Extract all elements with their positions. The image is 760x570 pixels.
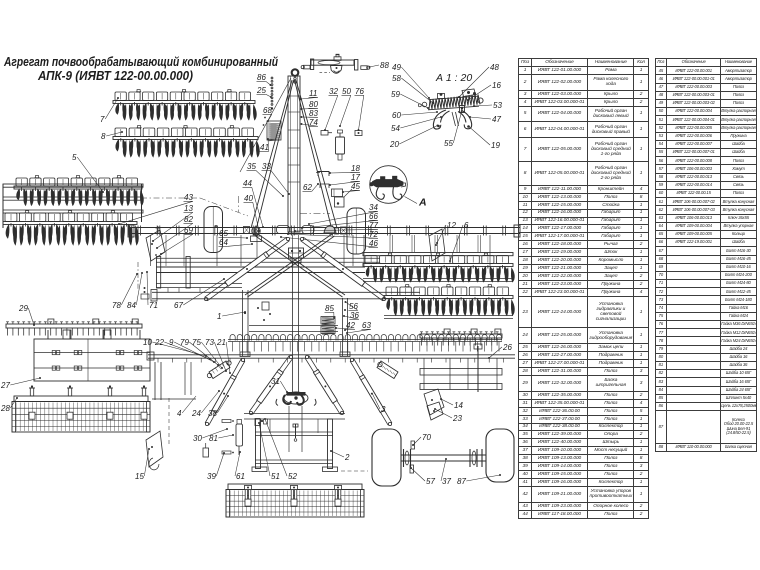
circle detail A <box>370 166 417 204</box>
inner arm left <box>256 234 346 297</box>
callout 5 <box>72 153 104 193</box>
svg-text:26: 26 <box>502 343 512 352</box>
callout 56 <box>345 301 359 311</box>
callout 51 <box>258 422 280 481</box>
callout 10 <box>143 338 207 357</box>
svg-text:40: 40 <box>244 194 253 203</box>
callout 50 <box>339 87 351 127</box>
chain (pos 86, 25) <box>271 77 273 110</box>
svg-text:49: 49 <box>392 63 401 72</box>
callout 55 <box>444 111 463 148</box>
svg-text:29: 29 <box>18 304 28 313</box>
callout 3 <box>372 393 386 414</box>
svg-text:75: 75 <box>192 338 201 347</box>
svg-text:34: 34 <box>369 203 378 212</box>
hydraulic lock parts (pos 32, 50, 76) <box>321 130 362 160</box>
spring block (pos 68, 41) <box>263 117 281 141</box>
svg-text:51: 51 <box>271 472 280 481</box>
wing fold arm right <box>300 237 385 301</box>
svg-text:Агрегат почвообрабатывающий ко: Агрегат почвообрабатывающий комбинирован… <box>3 54 278 69</box>
svg-text:3: 3 <box>381 405 386 414</box>
fold axis dash line <box>141 198 248 216</box>
callout 46 <box>280 236 378 248</box>
svg-text:15: 15 <box>135 472 144 481</box>
callout 23 <box>434 408 462 423</box>
callout 47 <box>469 115 501 124</box>
callout 29 <box>18 304 35 326</box>
callout 22 <box>154 338 211 360</box>
right disc gang row 1 (pos 6) <box>363 253 514 283</box>
left wing disc gang (pos 5) <box>3 176 143 245</box>
svg-text:23: 23 <box>452 414 462 423</box>
svg-text:39: 39 <box>207 472 216 481</box>
detail A spring assembly <box>418 89 483 129</box>
callout 57 <box>410 467 435 486</box>
svg-text:60: 60 <box>392 111 401 120</box>
outer arm left <box>205 358 245 425</box>
callout 83 <box>301 109 319 118</box>
svg-text:79: 79 <box>180 338 189 347</box>
svg-text:67: 67 <box>174 301 183 310</box>
callout 17 <box>329 173 360 186</box>
callout 61 <box>235 451 245 481</box>
right disc gang row 2 <box>384 285 514 316</box>
carrier frame (pos 2) <box>203 419 338 472</box>
callout 20 <box>389 125 439 150</box>
svg-text:41: 41 <box>260 143 269 152</box>
callout 69 <box>160 226 193 255</box>
svg-text:1: 1 <box>217 312 221 321</box>
svg-text:54: 54 <box>391 124 400 133</box>
spring stack (pos 53) <box>321 317 335 335</box>
third frame beam <box>151 290 420 302</box>
link fittings (pos 9,10,22) <box>257 302 271 321</box>
callout 35 <box>247 162 285 197</box>
callout 72 <box>287 230 378 239</box>
svg-text:80: 80 <box>309 100 318 109</box>
callout 54 <box>391 116 442 133</box>
callout 85 <box>325 304 336 319</box>
callout 34 <box>308 203 378 225</box>
svg-text:27: 27 <box>0 381 10 390</box>
svg-text:24: 24 <box>191 409 201 418</box>
callout 15 <box>135 448 150 481</box>
callout 66 <box>301 212 378 229</box>
callout 81 <box>209 434 234 443</box>
dashed link line <box>169 398 200 446</box>
callout 30 <box>193 428 228 443</box>
svg-text:9: 9 <box>169 338 174 347</box>
callout 28 <box>0 397 18 413</box>
svg-text:65: 65 <box>219 229 228 238</box>
gauge wheel left <box>204 207 223 253</box>
lower arm left <box>249 355 293 414</box>
svg-text:57: 57 <box>426 477 435 486</box>
callout 1 <box>217 311 246 321</box>
stand plate (pos 15) <box>146 431 163 470</box>
callout 75 <box>192 338 223 369</box>
detail title A 1:20 <box>435 72 472 84</box>
svg-text:81: 81 <box>209 434 218 443</box>
tine bar with spring clips <box>228 334 502 351</box>
svg-text:22: 22 <box>154 338 164 347</box>
svg-text:14: 14 <box>454 401 463 410</box>
callout 16 <box>467 81 501 101</box>
callout 44 <box>243 179 265 228</box>
roller basket (pos 28) <box>12 385 150 432</box>
right subframe (pos 26) <box>384 316 513 393</box>
svg-text:32: 32 <box>329 87 338 96</box>
bottom roller basket <box>226 484 364 517</box>
svg-text:А 1 : 20: А 1 : 20 <box>435 72 472 84</box>
dash-dot axis <box>239 196 331 214</box>
callout 32 <box>324 87 338 131</box>
svg-text:31: 31 <box>271 377 280 386</box>
callout 25 <box>256 86 272 98</box>
svg-text:25: 25 <box>256 86 266 95</box>
svg-text:72: 72 <box>369 230 378 239</box>
arm base bar <box>244 414 345 420</box>
svg-text:73: 73 <box>205 338 214 347</box>
svg-text:71: 71 <box>149 301 158 310</box>
frame posts <box>151 235 491 266</box>
svg-text:48: 48 <box>490 63 499 72</box>
svg-text:68: 68 <box>263 106 272 115</box>
callout 33 <box>262 162 291 195</box>
svg-text:61: 61 <box>236 472 245 481</box>
callout 39 <box>207 452 225 481</box>
callout 21 <box>216 338 231 374</box>
subframe (pos 27) <box>34 330 150 381</box>
right spike harrow <box>420 329 502 346</box>
parts table columns 1 (pos 1-44) <box>518 58 648 519</box>
callout 70 <box>412 433 431 446</box>
svg-text:20: 20 <box>389 140 399 149</box>
callout 58 <box>392 74 434 104</box>
callout 68 <box>263 106 273 122</box>
callout 86 <box>257 73 272 86</box>
svg-text:38: 38 <box>208 409 217 418</box>
wing fold arm left (pos 16) <box>204 237 289 301</box>
svg-text:33: 33 <box>262 162 271 171</box>
svg-text:87: 87 <box>457 477 466 486</box>
callout 6 <box>449 221 469 262</box>
svg-text:35: 35 <box>247 162 256 171</box>
callout 12 plate <box>429 229 445 261</box>
callout 65 <box>219 229 249 239</box>
callout 43 <box>118 193 193 225</box>
centre column <box>289 263 302 452</box>
callout 76 <box>355 87 365 131</box>
chain strainer left <box>207 361 231 379</box>
callout 60 <box>392 111 438 120</box>
svg-text:37: 37 <box>442 477 451 486</box>
callout 45 <box>342 182 360 193</box>
svg-text:А: А <box>418 197 427 209</box>
callout 13 <box>152 204 193 242</box>
svg-text:18: 18 <box>351 164 360 173</box>
title line 1 <box>3 54 278 69</box>
svg-text:4: 4 <box>177 409 182 418</box>
hitch beam assembly (pos 88) <box>301 54 370 73</box>
callout 71 <box>146 271 158 310</box>
callout 27 <box>0 377 41 390</box>
rotary hub (pos 31) <box>276 392 316 406</box>
callout 79 <box>180 338 219 366</box>
callout 59 <box>391 90 429 109</box>
bracket plate (pos 13) <box>146 226 165 261</box>
outer arm right <box>350 358 392 425</box>
callout 18 <box>329 164 360 174</box>
beam centre fittings (pos 34,66,77,72,46) <box>244 226 347 235</box>
svg-text:84: 84 <box>127 301 136 310</box>
callout 19 <box>468 126 501 151</box>
callout 82 <box>156 215 193 249</box>
wheel chock (pos 14, 23) <box>424 389 444 420</box>
svg-text:7: 7 <box>100 115 105 124</box>
callout 48 <box>458 63 499 98</box>
callout 62 <box>303 183 320 192</box>
callout 12 <box>436 221 456 244</box>
transport wheel right <box>486 429 514 482</box>
disc gang row (pos 7) <box>113 90 256 120</box>
svg-text:6: 6 <box>464 221 469 230</box>
svg-text:76: 76 <box>355 87 364 96</box>
callout 2 <box>330 450 350 462</box>
svg-text:52: 52 <box>288 472 297 481</box>
svg-text:2: 2 <box>344 453 350 462</box>
parts table columns 2 (pos 45-88) <box>655 58 757 452</box>
hinge bracket <box>335 189 353 207</box>
dashed frame line <box>341 470 368 472</box>
disc gang row (pos 8) <box>113 126 259 157</box>
callout 87 <box>457 474 501 486</box>
svg-text:53: 53 <box>493 101 502 110</box>
gauge wheel right <box>347 208 366 254</box>
callout 14 <box>440 398 463 410</box>
callout 52 <box>264 418 297 481</box>
svg-text:50: 50 <box>342 87 351 96</box>
callout 36 <box>343 311 359 320</box>
centre hitch clevis <box>289 248 304 263</box>
callout 74 <box>301 118 319 127</box>
centre posts <box>240 290 350 357</box>
svg-text:88: 88 <box>380 61 389 70</box>
svg-text:77: 77 <box>369 221 378 230</box>
svg-text:28: 28 <box>0 404 10 413</box>
svg-text:8: 8 <box>101 132 106 141</box>
svg-text:11: 11 <box>309 89 317 98</box>
callout 84 <box>127 272 143 310</box>
callout 64 <box>219 238 254 247</box>
svg-text:12: 12 <box>447 221 456 230</box>
svg-text:43: 43 <box>184 193 193 202</box>
svg-text:47: 47 <box>492 115 501 124</box>
callout 77 <box>294 221 378 232</box>
callout 4 <box>177 396 196 418</box>
svg-text:55: 55 <box>444 139 453 148</box>
title line 2 <box>37 68 193 83</box>
bottom toolbar <box>147 352 515 363</box>
callout 26 <box>488 343 512 359</box>
svg-text:45: 45 <box>351 182 360 191</box>
callout 63 <box>346 321 371 334</box>
callout 9 <box>169 338 215 363</box>
axle (pos 37) <box>401 441 486 473</box>
mast column (pos 11) <box>288 69 300 232</box>
svg-text:30: 30 <box>193 434 202 443</box>
callout 78 <box>112 273 138 310</box>
callout 37 <box>441 458 451 486</box>
svg-text:17: 17 <box>351 173 360 182</box>
callout 40 <box>244 194 261 232</box>
support legs (pos 4) <box>152 362 196 400</box>
callout 42 <box>335 321 355 330</box>
svg-text:62: 62 <box>303 183 312 192</box>
lower toolbar beam and wing-root frame <box>138 257 380 300</box>
callout 73 <box>205 338 227 372</box>
chain strainer right <box>377 361 398 379</box>
svg-text:21: 21 <box>216 338 226 347</box>
callout 80 <box>301 100 319 110</box>
svg-text:58: 58 <box>392 74 401 83</box>
svg-text:10: 10 <box>143 338 152 347</box>
svg-text:13: 13 <box>184 204 193 213</box>
svg-text:АПК-9 (ИЯВТ 122-00.00.000): АПК-9 (ИЯВТ 122-00.00.000) <box>37 68 193 83</box>
A-frame legs <box>240 78 337 242</box>
svg-text:16: 16 <box>492 81 501 90</box>
svg-text:86: 86 <box>257 73 266 82</box>
callout 11 <box>300 89 318 100</box>
spike harrow (pos 29) <box>6 319 142 336</box>
svg-text:63: 63 <box>362 321 371 330</box>
centre rails <box>249 326 338 332</box>
inner arm right <box>245 234 335 297</box>
callout 24 <box>191 390 220 418</box>
callout 67 <box>174 278 225 310</box>
callout 8 <box>101 131 123 141</box>
svg-text:78: 78 <box>112 301 121 310</box>
callout 7 <box>100 97 119 124</box>
callout 53 <box>473 101 502 110</box>
svg-text:70: 70 <box>422 433 431 442</box>
svg-text:19: 19 <box>491 141 500 150</box>
svg-text:64: 64 <box>219 238 228 247</box>
svg-text:5: 5 <box>72 153 77 162</box>
svg-text:44: 44 <box>243 179 252 188</box>
callout 38 <box>208 395 229 418</box>
detail label A <box>418 197 427 209</box>
callout 49 <box>392 63 430 99</box>
clamp parts (pos 18, 17, 45, 62) <box>316 172 343 197</box>
callout 41 <box>260 138 270 152</box>
main wing beam (pos 1) <box>128 225 520 237</box>
callout 88 <box>369 61 390 70</box>
svg-text:83: 83 <box>309 109 318 118</box>
svg-text:66: 66 <box>369 212 378 221</box>
callout 31 <box>271 377 288 393</box>
svg-text:82: 82 <box>184 215 193 224</box>
transport wheel left <box>372 429 401 486</box>
lower arm right <box>305 355 344 414</box>
svg-text:85: 85 <box>325 304 334 313</box>
svg-text:59: 59 <box>391 90 400 99</box>
